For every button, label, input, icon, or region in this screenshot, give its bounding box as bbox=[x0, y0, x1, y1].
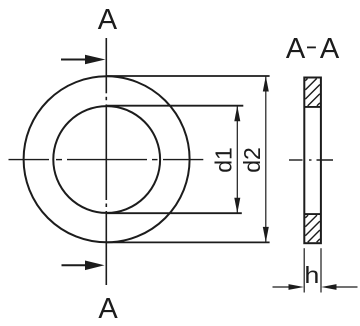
extension line d1 top tangent bbox=[107, 105, 244, 107]
extension line d2 bottom tangent bbox=[107, 241, 270, 243]
section arrow bottom bbox=[62, 261, 105, 271]
svg-text:A: A bbox=[98, 4, 118, 36]
section view: inner hole boundary lines bbox=[304, 107, 321, 214]
dimension line d2 with arrowheads bbox=[263, 76, 269, 242]
horizontal centerline of front view (dash-dot) bbox=[9, 159, 204, 161]
svg-text:d2: d2 bbox=[239, 147, 265, 173]
vertical cutting-plane line A-A (dash-dot) bbox=[105, 38, 107, 285]
front view: outer circle (d2) bbox=[24, 76, 190, 242]
svg-text:h: h bbox=[304, 263, 319, 289]
svg-text:A: A bbox=[320, 33, 340, 65]
extension line d2 top tangent bbox=[107, 75, 270, 77]
svg-text:A: A bbox=[98, 293, 118, 325]
svg-text:A: A bbox=[286, 33, 306, 65]
extension lines for h bbox=[304, 248, 321, 292]
front view: inner circle / hole (d1) bbox=[53, 106, 160, 213]
section view: horizontal centerline (dash-dot) bbox=[289, 159, 333, 161]
section arrow top bbox=[61, 55, 105, 65]
section view: hatching of top band bbox=[305, 79, 320, 106]
section view: washer cross-section outline bbox=[304, 78, 321, 244]
dimension h arrows (pointing inward) bbox=[273, 284, 358, 290]
svg-text:d1: d1 bbox=[211, 147, 237, 173]
section label A-A bbox=[286, 33, 340, 65]
dimension line d1 with arrowheads bbox=[234, 106, 240, 214]
extension line d1 bottom tangent bbox=[107, 212, 242, 214]
section view: hatching of bottom band bbox=[305, 215, 320, 242]
